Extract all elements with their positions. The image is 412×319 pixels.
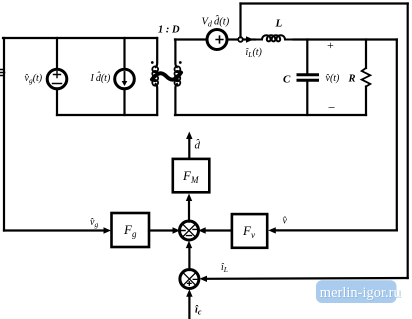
transformer 1:D secondary winding [175,66,181,85]
wire: iL bottom horizontal [203,277,408,280]
wire: Vd source to node [227,38,238,40]
wire: iL right vertical [407,4,409,279]
arrow into Fg [104,227,112,233]
wire: FM output d [188,137,190,159]
svg-text:C: C [283,74,291,86]
transformer 1:D primary lead bottom [156,84,158,115]
wire: secondary top to Vd source [175,38,207,40]
summer S2 (lower) [180,270,199,289]
svg-text:îc: îc [195,305,202,317]
svg-text:v̂g(t): v̂g(t) [24,73,42,85]
wire: ic input [188,294,190,319]
voltage source vg(t) leads [56,38,58,69]
wire: iL top horizontal [241,2,408,4]
wire: current direction arrow [246,36,254,42]
capacitor C plates [298,75,318,80]
arrow d output [186,132,192,140]
wire: Fv to upper summer [204,229,232,231]
current source I d(t) [115,69,135,89]
current source I d(t) leads [123,38,125,69]
voltage source Vd d(t) [207,30,227,50]
block FM [173,159,210,192]
transformer 1:D secondary lead top [175,40,177,68]
inductor L [255,35,294,41]
svg-text:Vd d̂(t): Vd d̂(t) [202,14,230,28]
wire: v feedback right vertical [396,40,398,231]
svg-text:Fg: Fg [123,222,137,239]
wire: top-left rail [3,37,157,39]
wire: left feedback line (vg tap) [3,38,5,231]
arrow into upper summer from right [198,227,206,233]
resistor R lead top [365,40,367,69]
transformer 1:D primary winding [152,66,158,85]
transformer 1:D secondary lead bottom [175,84,177,115]
wire: iL tap vertical up [239,4,241,38]
svg-text:+: + [327,38,334,52]
transformer 1:D primary lead top [156,38,158,67]
resistor R zigzag [362,68,371,87]
svg-text:Fv: Fv [242,223,255,240]
svg-text:L: L [275,18,283,30]
svg-text:v̂: v̂ [282,216,287,227]
resistor R lead bottom [365,87,367,116]
arrow into upper summer from below [186,241,192,249]
transformer crossing mark [152,73,181,80]
svg-text:FM: FM [182,168,199,185]
capacitor C lead top [306,40,308,74]
wire: output bottom rail [175,114,366,116]
svg-text:merlin-igor.ru: merlin-igor.ru [320,285,401,301]
watermark merlin-igor.ru [316,280,397,303]
svg-text:R: R [348,74,356,85]
wire: v feedback bottom horizontal [272,229,397,231]
node iL tap [238,37,243,42]
svg-text:I d̂(t): I d̂(t) [90,71,111,84]
svg-text:îL(t): îL(t) [246,47,263,59]
arrow ic into lower summer [186,289,192,297]
svg-text:1 : D: 1 : D [158,25,180,36]
svg-text:îL: îL [221,262,228,274]
voltage source vg(t) [47,69,67,89]
arrow into Fv [268,227,276,233]
svg-text:−: − [328,100,335,115]
wire: upper summer to FM [188,198,190,222]
svg-text:v̂g: v̂g [90,217,99,229]
arrow into lower summer from right [200,276,208,282]
wire: output top rail [294,38,397,40]
block Fv [232,214,267,248]
svg-text:d̂: d̂ [195,138,201,151]
wire: lower summer to upper summer [188,246,190,270]
summer S1 (upper) [180,221,199,240]
wire: vg into Fg [4,229,105,231]
arrow into upper summer from left [173,227,181,233]
arrow into FM [186,194,192,202]
wire: bottom-left rail [57,114,157,116]
svg-text:v̂(t): v̂(t) [325,73,340,84]
scan tick marks on left wire [1,70,5,76]
transformer polarity dots [151,61,154,64]
capacitor C lead bottom [306,82,308,116]
block Fg [112,213,150,247]
wire: Fg to upper summer [149,229,176,231]
